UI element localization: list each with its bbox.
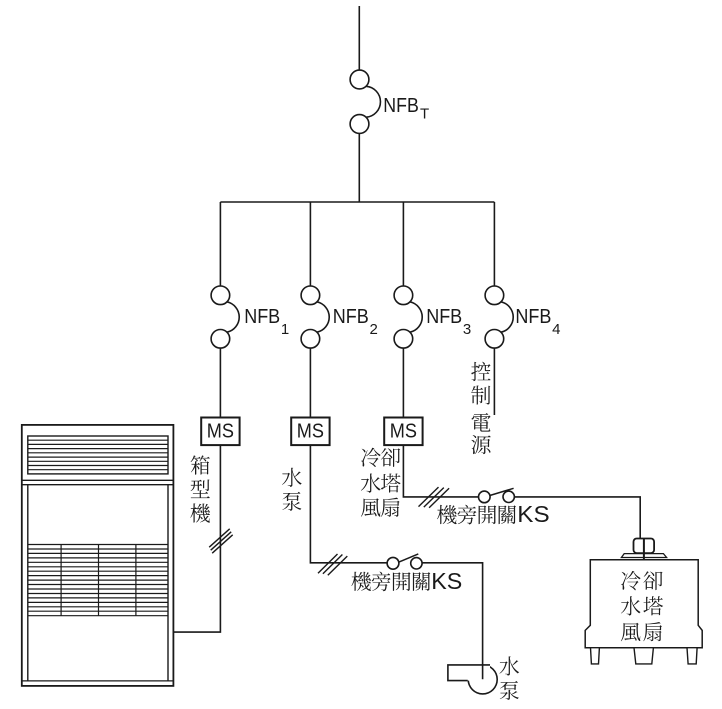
svg-text:2: 2 [370, 321, 378, 338]
wire: branch 3 drop [402, 202, 404, 286]
svg-text:MS: MS [390, 421, 417, 443]
phase marks (branch 3) [419, 487, 450, 508]
breaker NFB2 [301, 286, 329, 348]
svg-text:NFB: NFB [333, 306, 369, 328]
label 機旁開關KS (fan local switch) [437, 501, 549, 527]
label 控制電源 (control power, branch 4) [471, 362, 490, 454]
svg-text:NFB: NFB [426, 306, 462, 328]
svg-text:NFB: NFB [244, 306, 280, 328]
label NFB1 [244, 306, 289, 338]
switch KS (pump circuit) [387, 554, 422, 569]
label 箱型機 (packaged unit, branch 1) [190, 455, 210, 522]
packaged AC unit 箱型機 [22, 425, 174, 686]
pump 水泵 [448, 664, 497, 694]
phase marks (branch 1) [209, 529, 233, 553]
wire: incoming supply [358, 6, 360, 70]
wire: MS1 down to packaged unit [173, 445, 220, 632]
svg-text:MS: MS [207, 421, 234, 443]
svg-text:KS: KS [517, 501, 549, 527]
wire: switch to cooling tower fan [515, 497, 641, 539]
wire: NFB1 to MS [219, 348, 221, 417]
wire: branch 4 drop [493, 202, 495, 286]
svg-text:NFB: NFB [515, 306, 551, 328]
switch KS (fan circuit) [479, 488, 515, 502]
label 冷卻水塔風扇 (cooling tower fan, branch 3) [361, 448, 401, 517]
svg-text:1: 1 [281, 321, 289, 338]
wire: NFB4 control tap [493, 348, 495, 415]
wire: MS3 down and right to switch [403, 445, 478, 497]
svg-text:NFB: NFB [383, 95, 419, 117]
breaker NFB_T [350, 70, 380, 133]
svg-text:4: 4 [552, 321, 560, 338]
label 水泵 (pump, branch 2) [282, 468, 302, 511]
breaker NFB4 [485, 286, 513, 348]
wire: branch 1 drop [219, 202, 221, 286]
label NFB3 [426, 306, 471, 338]
breaker NFB1 [211, 286, 239, 348]
magnetic starter MS (branch 1) [201, 418, 239, 446]
svg-text:T: T [420, 106, 429, 123]
svg-text:3: 3 [463, 321, 471, 338]
label NFB4 [515, 306, 560, 338]
wire: NFB_T to bus [358, 133, 360, 202]
wire: NFB3 to MS [402, 348, 404, 417]
wire: MS2 down and right to switch [310, 445, 387, 563]
svg-text:MS: MS [297, 421, 324, 443]
label NFB_T [383, 95, 429, 123]
label 水泵 (at pump) [500, 656, 520, 699]
wire: switch to pump [422, 563, 483, 680]
svg-text:KS: KS [431, 568, 462, 594]
label 機旁開關KS (pump local switch) [351, 568, 462, 594]
bus (distribution) [220, 201, 494, 203]
breaker NFB3 [394, 286, 422, 348]
magnetic starter MS (branch 2) [291, 418, 329, 446]
label 冷卻水塔風扇 (inside fan) [621, 571, 663, 641]
magnetic starter MS (branch 3) [384, 418, 422, 446]
label NFB2 [333, 306, 378, 338]
wire: branch 2 drop [309, 202, 311, 286]
wire: NFB2 to MS [309, 348, 311, 417]
phase marks (branch 2) [318, 554, 347, 575]
cooling tower fan 冷卻水塔風扇 [585, 539, 702, 664]
